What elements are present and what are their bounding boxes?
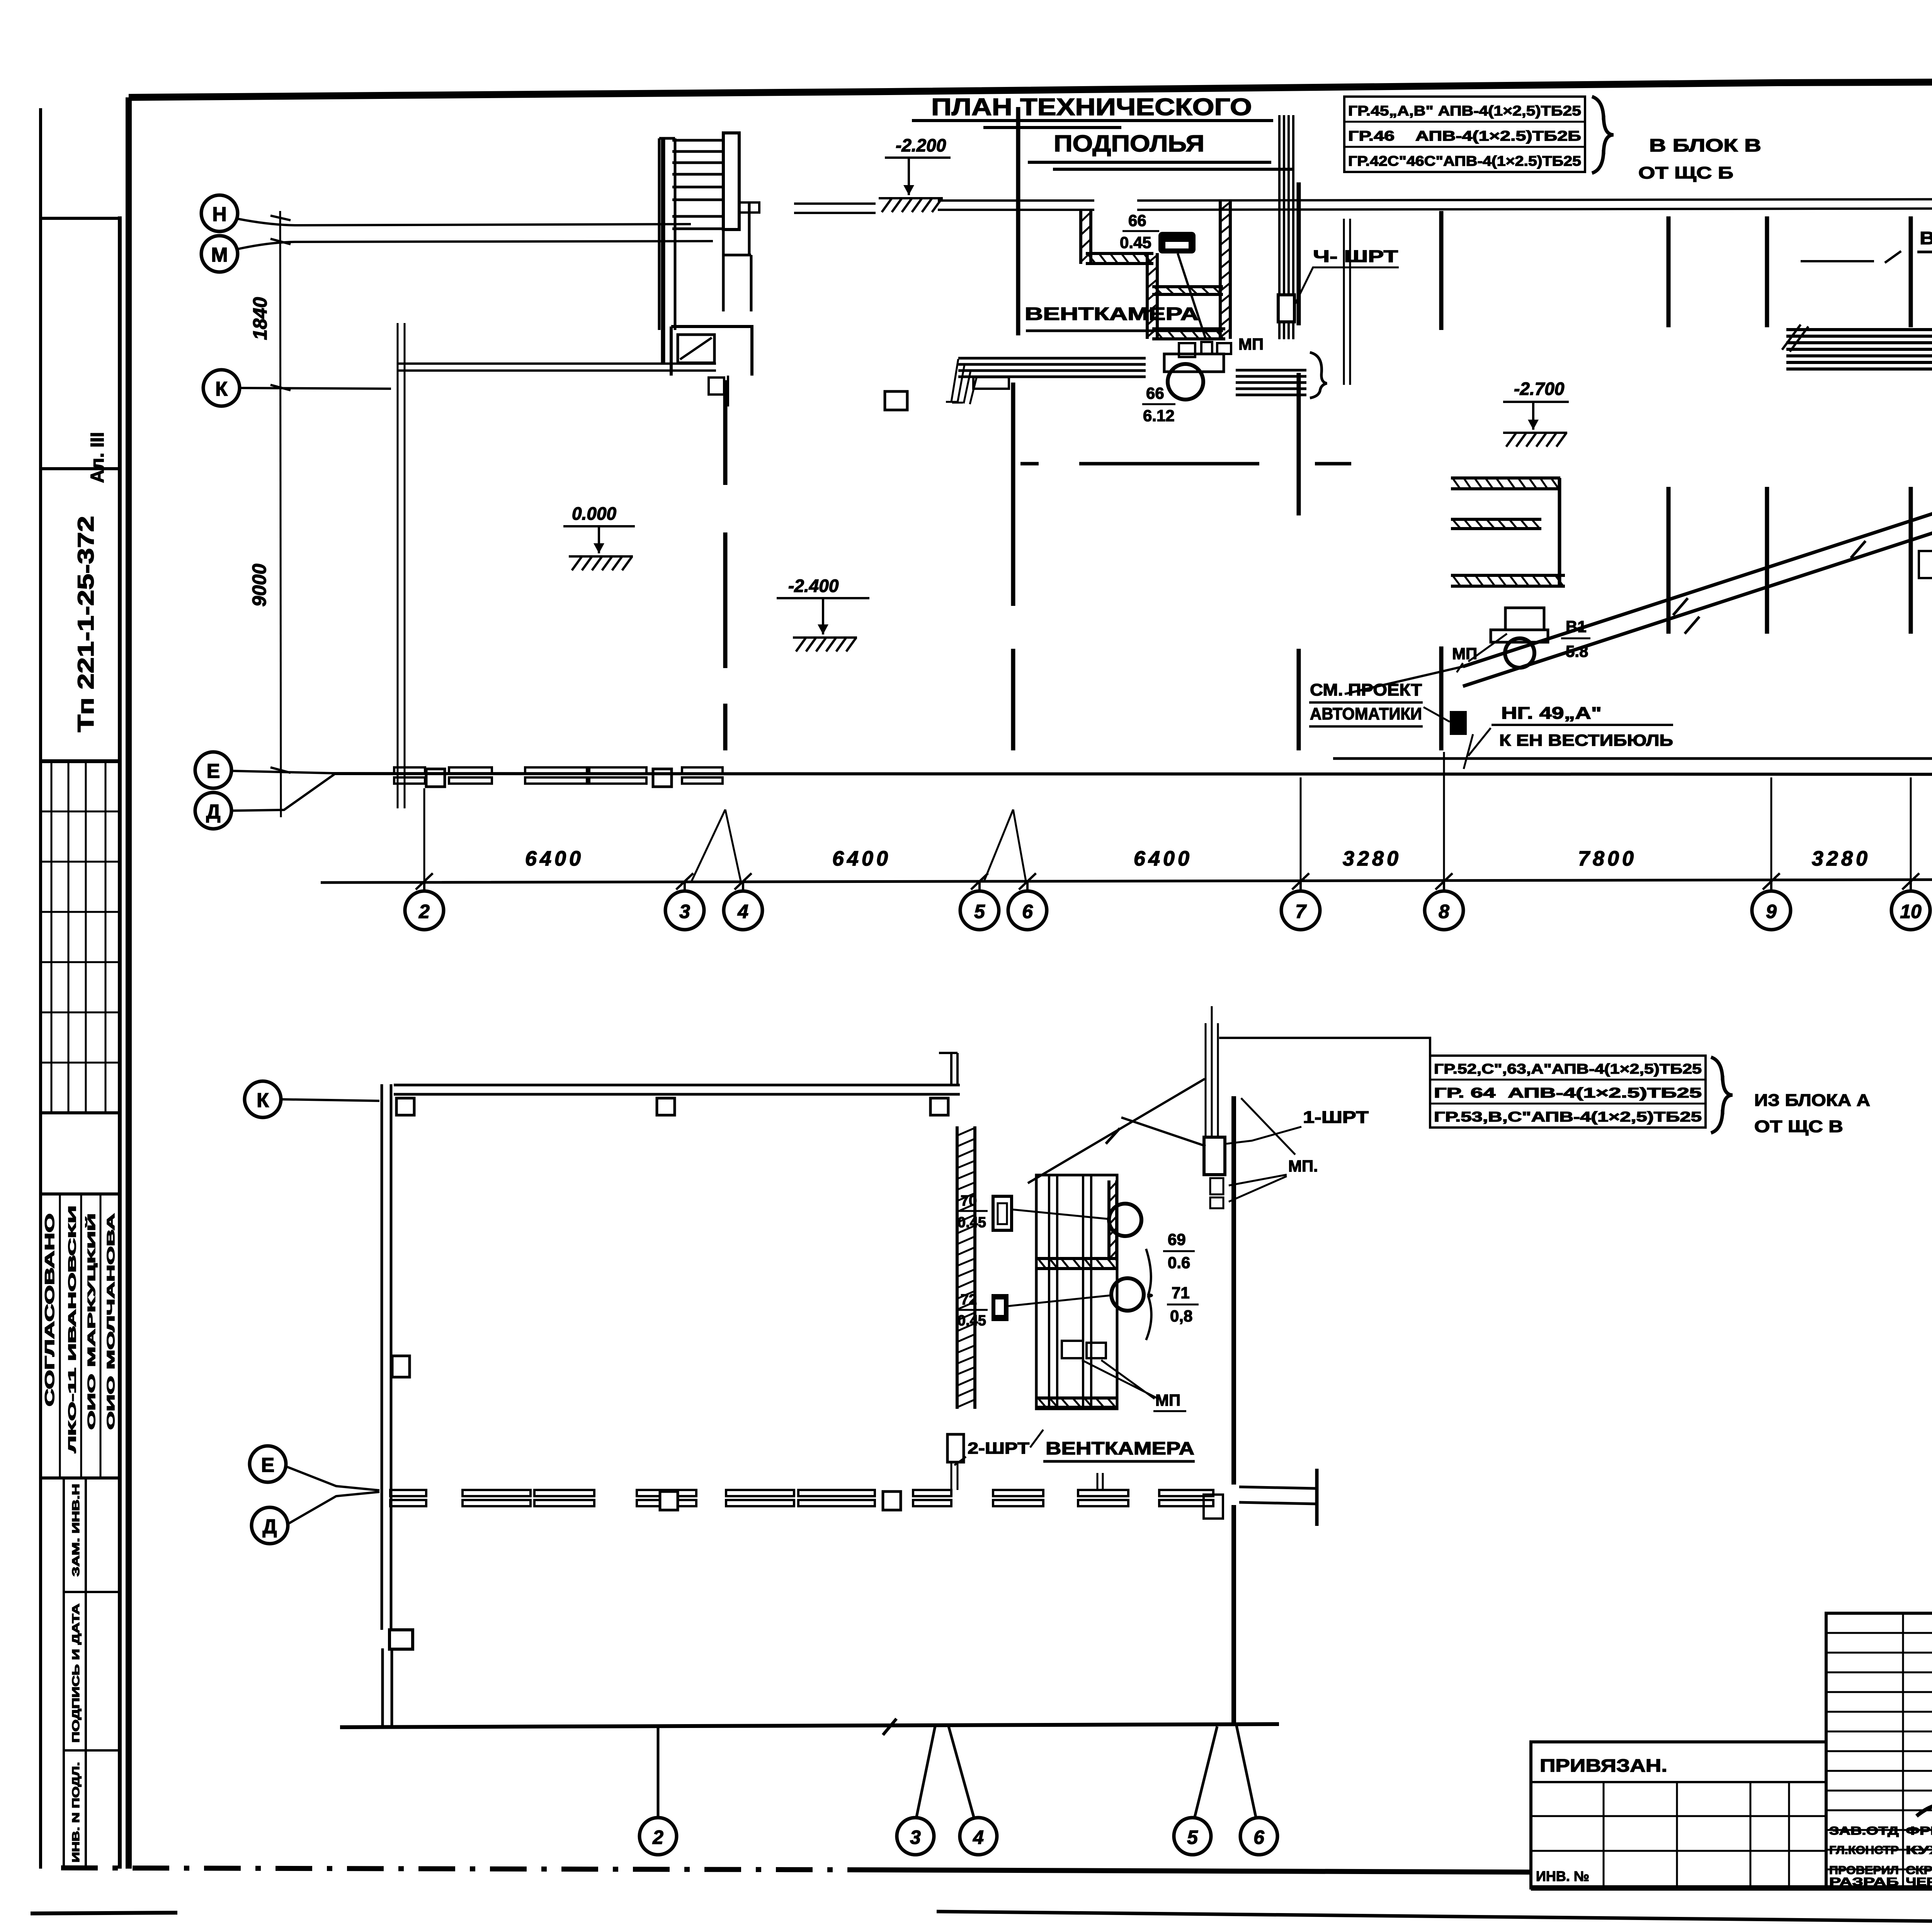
svg-text:0.45: 0.45 [957,1214,986,1231]
stamp divider D [41,1192,120,1196]
axis line K [240,388,391,389]
svg-text:ГЛ.КОНСТР: ГЛ.КОНСТР [1829,1844,1899,1857]
heater wall right [1239,1487,1316,1504]
svg-text:6: 6 [1253,1827,1265,1848]
axis circle M [201,236,238,272]
svg-text:6: 6 [1022,901,1033,922]
svg-text:ИЗ БЛОКА А: ИЗ БЛОКА А [1754,1091,1870,1110]
svg-text:3: 3 [679,901,690,922]
svg-text:Д: Д [206,801,220,823]
privyazan table [1531,1742,1826,1888]
svg-text:К: К [257,1089,269,1112]
grid drop 5-6 [984,810,1026,881]
axis line K bottom [281,1099,379,1101]
axis circle bottom 6 [1240,1818,1277,1855]
svg-text:Ч- ШРТ: Ч- ШРТ [1313,247,1398,266]
svg-text:ОИО МОЛЧАНОВА: ОИО МОЛЧАНОВА [105,1213,117,1430]
ventkamera bottom underline [1043,1460,1195,1463]
interior wall x3730 [1439,211,1444,750]
ventkamera right underline [1917,251,1932,253]
diagonal bottom 1 break [1106,1128,1120,1144]
cable brace right [1310,352,1327,398]
svg-text:2: 2 [418,901,430,922]
leader 66 to pump [1178,253,1206,338]
stair tab [739,202,759,213]
vertical grid line left [280,211,281,817]
leader 2-ShRT [954,1430,1043,1465]
interior wall x4945 [1909,216,1913,634]
heater row bottom plan [798,1490,875,1496]
svg-text:ПРОВЕРИЛ: ПРОВЕРИЛ [1829,1864,1899,1877]
svg-text:0.000: 0.000 [572,503,617,524]
svg-text:Е: Е [207,760,220,782]
box left of endcap [1204,1495,1223,1519]
axis E main line [332,774,1932,775]
cable bundle right of pump [1236,370,1306,395]
axis riser 8 [1443,881,1445,892]
underline Ng 49A [1492,724,1673,726]
cable table 1 [1344,97,1585,172]
axis line M [237,241,713,249]
axis E upper line [1333,759,1932,759]
bottom plan bottom wall [340,1724,1279,1727]
big signature [1917,1798,1932,1816]
axis tick 7 [1292,873,1309,889]
hatched room top bar [1451,487,1560,490]
hatched room bottom bar [1451,585,1565,588]
axis tick 2 [416,873,433,889]
table 1 brace [1592,97,1614,173]
heater row top plan [525,767,587,774]
svg-text:В БЛОК В: В БЛОК В [1649,135,1761,155]
axis circle 2 [405,891,444,930]
svg-text:9: 9 [1766,901,1777,922]
stamp divider A [41,467,120,470]
pump 66 circle [1168,364,1203,400]
pump V1 base [1491,630,1548,642]
svg-text:Д: Д [262,1515,277,1538]
mid corridor wall b [1079,462,1259,466]
leaders MP bottom vk [1082,1360,1158,1399]
axis circle N [201,195,238,231]
svg-text:70: 70 [961,1193,977,1209]
diagonal cable 1 [1463,503,1932,667]
pump V1 stem [1505,608,1544,630]
svg-text:ВЕНТКАМЕРА: ВЕНТКАМЕРА [1025,304,1199,324]
axis circle 7 [1281,891,1320,930]
heater row top plan [682,767,723,774]
interior wall x2635 [1016,107,1020,335]
hatched room mid bar [1451,527,1541,530]
stamp signature columns [60,1194,100,1478]
svg-text:2: 2 [652,1827,663,1848]
svg-text:АВТОМАТИКИ: АВТОМАТИКИ [1310,704,1422,723]
svg-text:МП: МП [1155,1391,1180,1409]
svg-text:0.45: 0.45 [1120,233,1151,252]
axis tick 9 [1763,873,1780,889]
junction box bottom a [660,1492,678,1510]
svg-text:МП.: МП. [1288,1157,1318,1175]
heater row bottom plan [726,1490,794,1496]
riser 2-ShRT box [947,1434,964,1462]
line below vestibule [727,376,729,406]
title underline 2 [1028,162,1293,169]
pump V1 circle [1505,638,1534,668]
axis riser 10 [1910,881,1912,892]
svg-text:66: 66 [1146,384,1164,402]
svg-text:ЛКО-11 ИВАНОВСКИ: ЛКО-11 ИВАНОВСКИ [66,1206,78,1453]
svg-text:ГР.53,В,С"АПВ-4(1×2,5)ТБ25: ГР.53,В,С"АПВ-4(1×2,5)ТБ25 [1434,1109,1702,1125]
heater row bottom plan [913,1490,951,1496]
main bundle arrow end [1782,325,1808,352]
interior wall x1877 [723,380,728,750]
axis circle D [195,793,231,829]
grid ticks [270,216,291,773]
diagonal bottom 1 [1028,1079,1205,1183]
vestibule inner square [678,335,714,363]
axis circle bottom 5 [1174,1818,1211,1855]
vent chamber partition hatched [1036,1267,1117,1270]
white box elbow [1919,551,1932,578]
heater row bottom plan [1159,1490,1213,1496]
box 70 [993,1196,1012,1230]
ventkamera partition [1152,293,1223,296]
bottom sub line left [31,1913,177,1913]
svg-text:1840: 1840 [249,297,271,340]
tick below label [1097,1473,1103,1491]
cluster box b [1201,342,1212,354]
pump 69 circle [1109,1204,1141,1236]
axis tick 5 [971,873,988,889]
axis break marks near label [1885,248,1932,263]
svg-text:НГ. 49„А": НГ. 49„А" [1501,704,1602,723]
cable bundle left [958,358,1146,377]
svg-text:71: 71 [1172,1284,1190,1302]
svg-text:3280: 3280 [1343,847,1401,870]
stair landing [723,202,751,311]
axis riser 5 [978,881,981,892]
ventkamera left underline [1026,330,1223,332]
small box below vestibule [709,378,724,395]
box 4-ShRT [1278,295,1294,322]
svg-text:0.45: 0.45 [957,1313,986,1329]
interior wall x4318 [1667,216,1671,634]
svg-text:72: 72 [961,1292,977,1308]
axis circle 9 [1752,891,1791,930]
vent chamber left hatched wall [956,1126,959,1409]
heater wall right endcap [1315,1469,1319,1526]
axis tick 6 [1019,873,1036,889]
leader MP riser8 [1457,634,1507,672]
cable box left [973,377,1009,389]
svg-text:0,8: 0,8 [1170,1307,1192,1325]
cable bundle left drop [946,359,977,404]
heater row bottom plan [534,1490,594,1496]
heater row top plan [394,767,425,774]
left wall break box [389,1630,413,1649]
box riser8 [1450,711,1467,735]
bottom border solid part [850,1870,1531,1872]
diagonal from top right [1241,1098,1295,1155]
stamp right line [118,216,122,1869]
heater row top plan [589,767,646,774]
svg-text:7: 7 [1295,901,1307,922]
stamp divider B [41,759,120,763]
column box b [657,1098,675,1115]
grid drop 8 [1443,752,1445,881]
axis circle 8 [1425,891,1463,930]
top wall segment a [794,204,876,213]
svg-text:ГР.46 АПВ-4(1×2.5)ТБ2Б: ГР.46 АПВ-4(1×2.5)ТБ2Б [1348,128,1581,144]
label line dash [1801,256,1932,261]
axis line E stub [231,771,332,773]
svg-text:2-ШРТ: 2-ШРТ [968,1439,1029,1457]
axis circle 4 [724,891,762,930]
svg-text:Тп 221-1-25-372: Тп 221-1-25-372 [73,516,99,732]
interior wall x1716 [661,138,665,363]
svg-text:ГР.45„А,В" АПВ-4(1×2,5)ТБ25: ГР.45„А,В" АПВ-4(1×2,5)ТБ25 [1348,103,1581,119]
bottom plan right wall [1231,1096,1236,1726]
svg-text:ФРЕНДЛИХ: ФРЕНДЛИХ [1906,1825,1932,1837]
stamp divider C [41,1111,120,1114]
svg-text:К ЕН ВЕСТИБЮЛЬ: К ЕН ВЕСТИБЮЛЬ [1499,731,1673,749]
svg-text:ГР.52,С",63,А"АПВ-4(1×2,5)ТБ25: ГР.52,С",63,А"АПВ-4(1×2,5)ТБ25 [1434,1061,1702,1077]
cluster box a [1179,343,1195,357]
axis tick 10 [1902,873,1919,889]
vent chamber duct verticals [1049,1175,1091,1409]
bottom plan top wall [394,1085,960,1094]
axis circle D bottom [252,1507,288,1544]
interior wall x2622 [1011,383,1015,750]
top wall segment b [938,201,1094,210]
heater row bottom plan [463,1490,531,1496]
axis circle bottom 3 [897,1818,934,1855]
svg-text:-2.200: -2.200 [896,135,946,155]
svg-text:МП: МП [1452,645,1477,663]
axis line N [237,219,691,225]
axis tick 3 [676,873,693,889]
vestibule diagonal [680,338,712,359]
interior wall x4573 [1765,216,1769,634]
pump 66 body [1164,354,1224,372]
box at 2318 [885,391,907,410]
stamp inner table [64,1478,120,1869]
wall y940 double [398,364,716,371]
interior wall x3361 [1297,182,1301,750]
svg-text:ИНВ. №: ИНВ. № [1536,1868,1589,1884]
grid drop 9 [1770,777,1772,881]
svg-text:1-ШРТ: 1-ШРТ [1303,1108,1369,1127]
svg-text:3: 3 [910,1827,921,1848]
title underline 1 [912,121,1273,128]
leader 70 to pump [1012,1209,1110,1219]
stair treads [672,140,723,229]
heater row bottom plan [993,1490,1043,1496]
grid drop 2 [423,788,425,881]
column box c [930,1098,948,1115]
grid drop 3-4 [692,810,741,881]
svg-text:6400: 6400 [832,847,891,870]
axis circle 10 [1891,891,1930,930]
ventkamera left wall S1 [1086,262,1153,265]
svg-text:ПРИВЯЗАН.: ПРИВЯЗАН. [1540,1755,1667,1776]
pump 71 circle [1111,1278,1144,1311]
svg-text:М: М [211,244,228,266]
axis line E bottom [286,1466,379,1490]
stamp divider E [41,1476,120,1480]
heater row bottom plan [637,1490,696,1496]
equipment box 66 [1158,232,1196,253]
axis circle E [195,752,231,788]
bottom border dash-dot [61,1868,850,1870]
svg-text:СКРЫНЧЕНКО: СКРЫНЧЕНКО [1906,1864,1932,1877]
svg-text:5: 5 [1187,1827,1198,1848]
svg-text:К: К [215,378,228,400]
svg-text:ЗАВ.ОТД: ЗАВ.ОТД [1829,1825,1899,1837]
svg-text:ИНВ. N ПОДЛ.: ИНВ. N ПОДЛ. [70,1762,82,1862]
heater row bottom plan [1078,1490,1128,1496]
riser bundle 4-ShRT [1279,115,1293,339]
stamp top line [41,217,120,220]
mid corridor wall c [1315,462,1351,466]
cable horizontal to table 4 [1219,1038,1430,1056]
heater row top plan [449,767,492,774]
svg-text:ГР. 64 АПВ-4(1×2.5)ТБ25: ГР. 64 АПВ-4(1×2.5)ТБ25 [1434,1085,1702,1101]
svg-text:ПЛАН ТЕХНИЧЕСКОГО: ПЛАН ТЕХНИЧЕСКОГО [931,94,1252,121]
ventkamera left wall W [1079,210,1082,264]
vent chamber bottom hatched [1036,1406,1117,1409]
stair left stringer [659,138,675,330]
table 4 brace [1711,1057,1733,1133]
page frame left border [126,97,132,1869]
diagonal cable 2 breaks [1685,617,1699,634]
bottom sub line right [937,1912,1932,1928]
svg-text:6.12: 6.12 [1143,406,1175,425]
axis circle E bottom [250,1446,286,1482]
leader 72 to pump [1009,1295,1112,1306]
svg-text:8: 8 [1439,901,1449,922]
vent chamber right hatched [1107,1180,1111,1260]
diagonal cable 1 breaks [1673,541,1866,615]
axis circle 5 [960,891,999,930]
svg-text:ОИО МАРКУЦКИЙ: ОИО МАРКУЦКИЙ [85,1213,97,1430]
svg-text:9000: 9000 [248,564,270,607]
axis circle bottom 2 [639,1818,677,1855]
diagonal cable 2 [1463,522,1932,686]
svg-text:4: 4 [973,1827,984,1848]
svg-text:4: 4 [737,901,748,922]
leader 4-ShRT [1295,267,1399,304]
box 72 [992,1294,1009,1321]
svg-text:7800: 7800 [1578,847,1637,870]
svg-text:0.6: 0.6 [1168,1253,1190,1272]
cable table 4 (3 rows) [1430,1056,1706,1128]
svg-text:КУХТО: КУХТО [1906,1844,1932,1857]
bottom wall break mark [883,1719,896,1735]
stair right bar [723,133,739,230]
svg-text:66: 66 [1128,211,1146,230]
axis circle 6 [1008,891,1047,930]
axis tick 4 [735,873,752,889]
vestibule box [671,327,752,376]
svg-text:ПОДПИСЬ И ДАТА: ПОДПИСЬ И ДАТА [70,1604,82,1743]
riser 1-ShRT lines [1206,1006,1218,1137]
axis riser 9 [1770,881,1772,892]
axis circle 3 [665,891,704,930]
svg-text:СОГЛАСОВАНО: СОГЛАСОВАНО [43,1213,57,1406]
svg-text:Е: Е [261,1454,275,1476]
bottom plan left wall [382,1084,392,1726]
svg-text:-2.400: -2.400 [788,576,839,596]
cluster box c [1217,343,1231,354]
column box a [396,1098,414,1115]
junction box bottom b [883,1492,901,1510]
top wall segment c [1137,198,1932,210]
axis line D bottom [288,1492,379,1524]
axis circle K [203,370,240,406]
page frame top border [129,80,1932,97]
dimension line [321,877,1932,883]
box 1-ShRT [1204,1137,1225,1175]
ventkamera inner wall [1146,253,1149,339]
central grid table [1826,1613,1932,1888]
svg-text:ПОДПОЛЬЯ: ПОДПОЛЬЯ [1054,131,1204,156]
svg-text:ГР.42С"46С"АПВ-4(1×2.5)ТБ25: ГР.42С"46С"АПВ-4(1×2.5)ТБ25 [1348,153,1581,169]
svg-text:МП: МП [1238,335,1264,353]
junction box top row a [426,769,445,787]
axis line D stub [231,774,334,811]
svg-text:Н: Н [212,203,227,226]
axis circle bottom 4 [960,1818,997,1855]
svg-text:ВЕНТКАМЕРА: ВЕНТКАМЕРА [1046,1438,1194,1458]
heater row bottom plan [390,1490,426,1496]
left wall box [392,1356,410,1377]
ventkamera wall E [1219,201,1222,339]
stamp row grid [41,761,120,1113]
risers to circles 3 4 [917,1726,974,1817]
junction box top row b [653,769,672,787]
ventkamera wall S2 [1152,337,1225,340]
axis riser 6 [1026,881,1029,892]
vent chamber lower boxes [1062,1341,1083,1358]
axis circle K bottom [245,1081,281,1117]
grid drop 7 [1300,777,1302,881]
svg-text:10: 10 [1900,901,1922,922]
axis tick 8 [1435,873,1452,889]
interior wall x3486 [1344,219,1350,385]
svg-text:ЧЕРНЫШЕВ: ЧЕРНЫШЕВ [1906,1876,1932,1888]
svg-text:6400: 6400 [525,847,584,870]
axis riser 4 [742,881,744,892]
svg-text:3280: 3280 [1812,847,1871,870]
diagonal cable 3 [1345,667,1463,694]
bracket pumps [1146,1249,1152,1340]
grid drop 10 [1910,777,1912,881]
svg-text:6400: 6400 [1134,847,1192,870]
riser to circle 2 [657,1727,660,1817]
vent chamber duct box [1036,1175,1117,1409]
leaders MP 1-ShRT [1229,1175,1287,1202]
hatched room right wall [1558,478,1561,586]
svg-text:ВЕНТКАМЕРА: ВЕНТКАМЕРА [1920,228,1932,248]
svg-text:ОТ ЩС Б: ОТ ЩС Б [1638,163,1733,182]
leader avtomatiki [1423,707,1450,722]
leader Ng49A [1464,728,1491,769]
svg-text:Ал. III: Ал. III [87,432,108,483]
leader 1-ShRT [1226,1127,1301,1144]
svg-text:-2.700: -2.700 [1514,379,1565,399]
axis riser 7 [1299,881,1302,892]
